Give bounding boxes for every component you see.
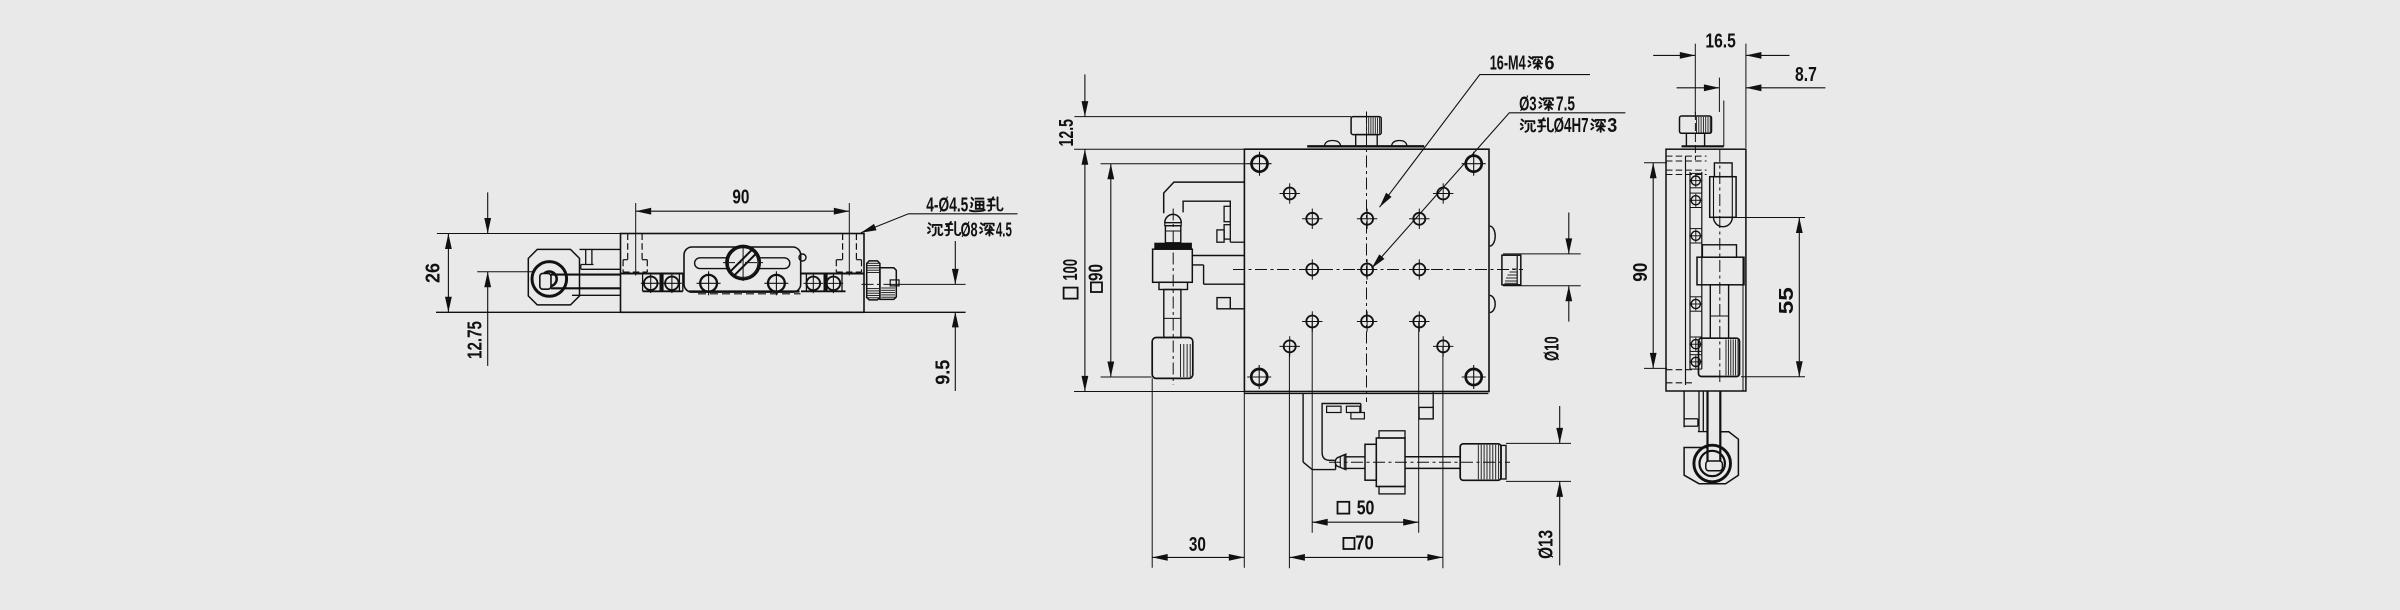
side view: plate edge line above body [1723, 101, 1725, 147]
left view: Y-screw axis line [477, 271, 533, 273]
plan view: M4 hole 8 [1413, 264, 1425, 276]
left view: Y-bracket step line [581, 268, 621, 270]
plan view: ext line 70 left [1288, 346, 1290, 568]
left view: lock screw circle [727, 246, 760, 279]
side view: top knob stem [1686, 133, 1704, 146]
side view: knob lobe octagon [1684, 432, 1738, 484]
plan view: M4 hole 4 [1361, 213, 1373, 225]
svg-text:4.5: 4.5 [996, 219, 1012, 241]
left view: Y-knob inner circle [542, 272, 557, 287]
left view: right ball channel [805, 274, 807, 292]
plan view: sq90 ext top [1101, 163, 1248, 165]
plan view: ext line 30 left [1151, 378, 1153, 567]
left view: Y-shaft end cap [540, 273, 551, 289]
side view: rail screw 4 [1690, 296, 1702, 298]
plan view: dia10 stub [1502, 255, 1521, 285]
plan view: Y-spindle tip collar [1165, 223, 1181, 226]
left view: Y-shaft top edge [551, 274, 621, 276]
plan view: X-bracket step box [1351, 413, 1365, 419]
side view: rail screw 6 [1690, 354, 1702, 356]
left view: ball screw 3 [807, 277, 821, 291]
left view: thimble knurl top [867, 262, 879, 264]
side view: dim 8.7 ext [1718, 78, 1720, 112]
left view: X-micrometer lock nut [880, 268, 896, 300]
plan view: M4 hole 10 [1361, 316, 1373, 328]
plan view: X-bracket notch box 2 [1346, 406, 1360, 412]
plan view: X-shaft [1405, 456, 1460, 458]
left view: counterbore leader line [861, 214, 1018, 233]
plan view: leader 16-M4 [1380, 75, 1591, 208]
left view: top-plate underside line left [621, 272, 684, 274]
plan view: side bump screw bottom [1490, 295, 1495, 312]
svg-text:16.5: 16.5 [1705, 31, 1735, 53]
side view: knob knurl [1725, 339, 1727, 375]
plan view: dimension sq90 [1110, 164, 1112, 377]
plan view: Y-knob [1152, 338, 1193, 379]
left view: Y-knob outer circle [532, 262, 567, 297]
svg-text:9.5: 9.5 [932, 360, 954, 385]
left view: dimension 90 line [636, 210, 850, 212]
plan view: Y-bracket web line 1 [1229, 222, 1231, 225]
side view: dovetail edge line [1742, 257, 1744, 391]
plan view: dimension 12.5 [1084, 74, 1086, 116]
side view: dim 55 ext [1737, 217, 1806, 219]
svg-text:16-M4: 16-M4 [1490, 52, 1527, 74]
left view: spindle stub [890, 280, 899, 286]
plan view: X-bracket notch box 1 [1327, 406, 1341, 412]
left view: dimension 26 line [447, 234, 449, 313]
plan view: dome screw right [1392, 141, 1408, 147]
plan view: base edge below square [1244, 393, 1488, 395]
plan view: X-knob knurl [1477, 445, 1479, 480]
side view: dimension 8.7 [1677, 87, 1720, 89]
side view: rail screw 5 [1690, 336, 1702, 338]
left view: hidden dovetail dashed line [698, 293, 801, 295]
plan view: X-axis centerline [1329, 461, 1510, 463]
plan view: Y-barrel flange [1155, 243, 1192, 249]
left view: ball screw 1 [644, 277, 658, 291]
side view: spindle housing [1710, 177, 1736, 218]
plan view: top bar edge [1307, 145, 1424, 147]
side view: top knob [1680, 116, 1712, 133]
svg-text:70: 70 [1355, 533, 1374, 555]
plan view: M4 hole 1 [1284, 188, 1296, 200]
plan view: side bump screw top [1490, 226, 1495, 246]
plan view: top knob knurl [1366, 118, 1368, 134]
side view: rail screw 2 [1690, 192, 1702, 194]
side view: shaft end cap [1706, 461, 1723, 471]
left view: Y-knob octagon housing [528, 249, 579, 305]
svg-text:30: 30 [1189, 534, 1206, 556]
plan view: ext line 50 right [1418, 322, 1420, 533]
side view: barrel block [1697, 257, 1744, 285]
side view: hidden line top 3 [1666, 169, 1707, 171]
plan view: Y-barrel body [1153, 249, 1193, 282]
side view: hidden line top 2 [1666, 160, 1707, 162]
side view: hidden line top 1 [1666, 155, 1707, 157]
side view: spindle dome [1714, 217, 1733, 226]
left view: Y-bracket top edge [580, 248, 621, 250]
left view: plate bottom thick edge [689, 290, 800, 292]
svg-text:12.75: 12.75 [465, 321, 487, 359]
side view: Y centerline [1719, 150, 1721, 385]
plan view: M4 hole 9 [1306, 316, 1318, 328]
plan view: horizontal centerline [1233, 269, 1523, 271]
plan view: dome screw left [1324, 141, 1340, 147]
side view: top bar edge [1682, 145, 1724, 147]
plan view: M4 hole 12 [1284, 340, 1296, 352]
plan view: Y-bracket tab [1217, 230, 1224, 242]
plan view: M4 hole 7 [1361, 264, 1373, 276]
plan view: corner screw bottom-left [1251, 369, 1267, 385]
side view: hidden line bottom 1 [1666, 369, 1694, 371]
plan view: ext line 70 right [1442, 346, 1444, 568]
left view: Y-bracket notch [581, 249, 594, 264]
plan view: leader dia3 [1372, 113, 1626, 268]
side view: body outline [1666, 149, 1746, 391]
svg-text:Ø8: Ø8 [961, 219, 978, 241]
side view: dimension 16.5 [1653, 54, 1695, 56]
left view: thimble knurl bottom [867, 288, 879, 290]
svg-text:90: 90 [1630, 263, 1652, 282]
plan view: X-bracket right box [1419, 407, 1433, 419]
svg-text:Ø3: Ø3 [1519, 94, 1537, 116]
plan view: Y-bracket outer edge [1164, 182, 1245, 213]
plan view: M4 hole 11 [1413, 316, 1425, 328]
left view: note counterbore dia8 depth4.5 [928, 223, 942, 235]
left view: dimension 9.5 lines [954, 241, 956, 284]
plan view: dimension sq100 [1084, 149, 1086, 391]
plan view: dimension sq70 [1289, 556, 1443, 558]
left view: X-axis extension line [896, 283, 966, 285]
svg-text:Ø4H7: Ø4H7 [1554, 115, 1589, 137]
side view: dim 16.5 ext left [1694, 44, 1696, 114]
side view: inner plate line [1685, 156, 1687, 385]
plan view: X-knob [1460, 444, 1501, 481]
plan view: M4 hole 13 [1437, 340, 1449, 352]
svg-text:90: 90 [732, 187, 749, 209]
svg-text:Ø10: Ø10 [1542, 336, 1564, 361]
plan view: X-barrel [1376, 438, 1405, 487]
plan view: square bottom extension line [1074, 391, 1244, 393]
left view: dimension 12.75 text [465, 321, 487, 359]
plan view: Y-bracket inner edge [1183, 201, 1230, 212]
left view: ball screw 4 [827, 277, 841, 291]
left view: stage body outline [621, 234, 865, 313]
plan view: M4 hole 5 [1413, 213, 1425, 225]
svg-text:6: 6 [1545, 52, 1555, 74]
left view: X-micrometer thimble [867, 261, 880, 300]
plan view: dia13 ext lines [1506, 442, 1571, 444]
plan view: dia10 ext lines [1503, 253, 1581, 255]
plan view: Y-spindle [1165, 226, 1180, 243]
left view: plate slot [695, 258, 790, 269]
svg-text:Ø13: Ø13 [1536, 530, 1558, 559]
left view: right counterbore hole [848, 203, 850, 276]
plan view: dimension dia10 [1568, 213, 1570, 254]
svg-text:4-Ø4.5: 4-Ø4.5 [926, 194, 968, 216]
left view: lock screw slot lines [734, 253, 757, 276]
left view: X-axis centerline [862, 283, 897, 285]
plan view: X-thimble flange [1365, 444, 1376, 480]
left view: top-plate underside line right [801, 272, 864, 274]
side view: dimension 55 [1798, 218, 1800, 377]
plan view: M4 hole 6 [1306, 264, 1318, 276]
left view: lock screw centerlines [723, 262, 763, 264]
svg-text:55: 55 [1776, 287, 1798, 314]
side view: barrel nut [1702, 245, 1736, 257]
side view: rail screw 1 [1690, 172, 1702, 174]
svg-text:100: 100 [1060, 259, 1082, 281]
plan view: dimension dia13 [1559, 406, 1561, 443]
plan view: Y-spindle dome tip [1165, 214, 1181, 222]
plan view: dimension 30 [1152, 556, 1244, 558]
side view: dimension 90 [1652, 163, 1654, 369]
plan view: knob-top extension line [1074, 116, 1351, 118]
plan view: X-barrel bottom step [1379, 487, 1405, 494]
svg-text:50: 50 [1357, 497, 1375, 519]
side view: shaft right edge [1719, 391, 1721, 462]
plan view: X-bracket bottom edge [1312, 469, 1335, 471]
left view: plate screw left [700, 275, 717, 292]
left view: slot plate [684, 247, 801, 292]
plan view: Y-barrel subflange [1159, 282, 1188, 289]
left view: lock screw blank [728, 248, 758, 278]
plan view: X-barrel top step [1379, 431, 1405, 438]
plan view: corner screw top-right [1466, 156, 1482, 172]
side view: dim 16.5 ext right [1745, 44, 1747, 148]
plan view: Y-bracket notch box 2 [1224, 225, 1230, 239]
svg-text:12.5: 12.5 [1056, 119, 1078, 147]
left view: top edge extension line [437, 233, 621, 235]
left view: dimension 12.75 lines [487, 192, 489, 233]
side view: screw rail [1689, 172, 1691, 369]
left view: bottom edge + extension to 9.5 dim [436, 311, 966, 313]
left view: Y-shaft bottom edge [551, 287, 621, 289]
left view: dimension 26 text [423, 263, 445, 283]
side view: stem [1710, 285, 1728, 338]
left view: dimension 9.5 text [932, 360, 954, 385]
plan view: X-spindle cone [1335, 454, 1346, 469]
plan view: Y-centerline [1172, 209, 1174, 386]
side view: top knob knurl [1696, 117, 1698, 133]
plan view: top plate square [1244, 149, 1489, 391]
plan view: Y-clamp lower tab [1217, 298, 1230, 309]
plan view: M4 hole 2 [1437, 188, 1449, 200]
plan view: X-bracket pocket [1322, 404, 1361, 461]
plan view: Y-stem [1164, 290, 1181, 338]
left view: left ball channel [642, 274, 644, 292]
left view: plate screw right [768, 275, 785, 292]
plan view: Y-bracket to square joint [1229, 239, 1231, 242]
left view: left channel divider block [660, 274, 663, 292]
side view: knob [1699, 338, 1740, 376]
plan view: top knob stem [1356, 135, 1378, 147]
plan view: corner screw top-left [1252, 156, 1268, 172]
svg-text:8.7: 8.7 [1795, 64, 1817, 86]
plan view: X-knob cap [1501, 445, 1506, 479]
side view: top knob centerline [1694, 112, 1696, 160]
plan view: note counterbore dia4H7 depth3 [1521, 120, 1535, 132]
side view: hidden line top 4 [1666, 174, 1707, 176]
plan view: vertical centerline [1366, 112, 1368, 403]
side view: rail screw 3 [1690, 228, 1702, 230]
left view: Y-bracket lower step [572, 294, 621, 296]
left view: ball screw 2 [665, 277, 679, 291]
plan view: ext line 50 left [1311, 322, 1313, 533]
plan view: Y-knob knurl [1180, 344, 1182, 377]
side view: hidden line bottom 2 [1666, 382, 1694, 384]
svg-text:3: 3 [1607, 115, 1617, 137]
svg-text:26: 26 [423, 263, 445, 283]
plan view: Y-bracket notch box 1 [1224, 206, 1230, 221]
left view: right channel divider block [824, 274, 827, 292]
svg-text:90: 90 [1086, 264, 1108, 281]
plan view: dia10 stub knurl [1512, 268, 1517, 270]
plan view: corner screw bottom-right [1466, 369, 1482, 385]
plan view: M4 hole 3 [1306, 213, 1318, 225]
side view: spindle top block [1714, 163, 1732, 177]
side view: lobe bracket arm [1683, 391, 1685, 427]
side view: lobe bracket wall [1698, 391, 1700, 432]
plan view: X-spindle [1346, 456, 1365, 458]
side view: dim 90 ext [1644, 162, 1667, 164]
plan view: dimension sq50 [1312, 521, 1419, 523]
side view: lobe inner circle [1700, 451, 1725, 476]
plan view: sq90 ext bottom [1101, 376, 1152, 378]
svg-text:7.5: 7.5 [1556, 94, 1575, 116]
left view: lock nut knurl [881, 287, 895, 289]
plan view: X-bracket left wall [1302, 393, 1304, 462]
plan view: Y-clamp arm [1192, 256, 1244, 285]
side view: lobe outer circle [1694, 445, 1731, 482]
side view: shaft left edge [1706, 391, 1708, 462]
left view: left counterbore hole [635, 203, 637, 276]
plan view: ext line 30 right [1243, 392, 1245, 568]
left view: plate ear pin [799, 254, 806, 261]
plan view: square top extension line [1074, 148, 1244, 150]
plan view: top knob [1351, 117, 1381, 135]
